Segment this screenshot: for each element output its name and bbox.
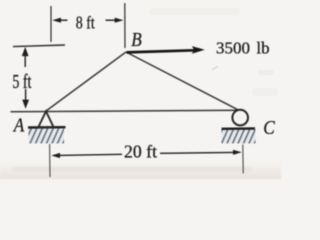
svg-text:20 ft: 20 ft bbox=[124, 142, 157, 162]
svg-text:8 ft: 8 ft bbox=[76, 12, 95, 32]
svg-text:3500lb: 3500lb bbox=[216, 38, 270, 57]
svg-text:B: B bbox=[131, 29, 142, 51]
svg-text:5 ft: 5 ft bbox=[12, 71, 31, 93]
svg-text:C: C bbox=[263, 117, 275, 139]
svg-text:A: A bbox=[12, 114, 25, 136]
